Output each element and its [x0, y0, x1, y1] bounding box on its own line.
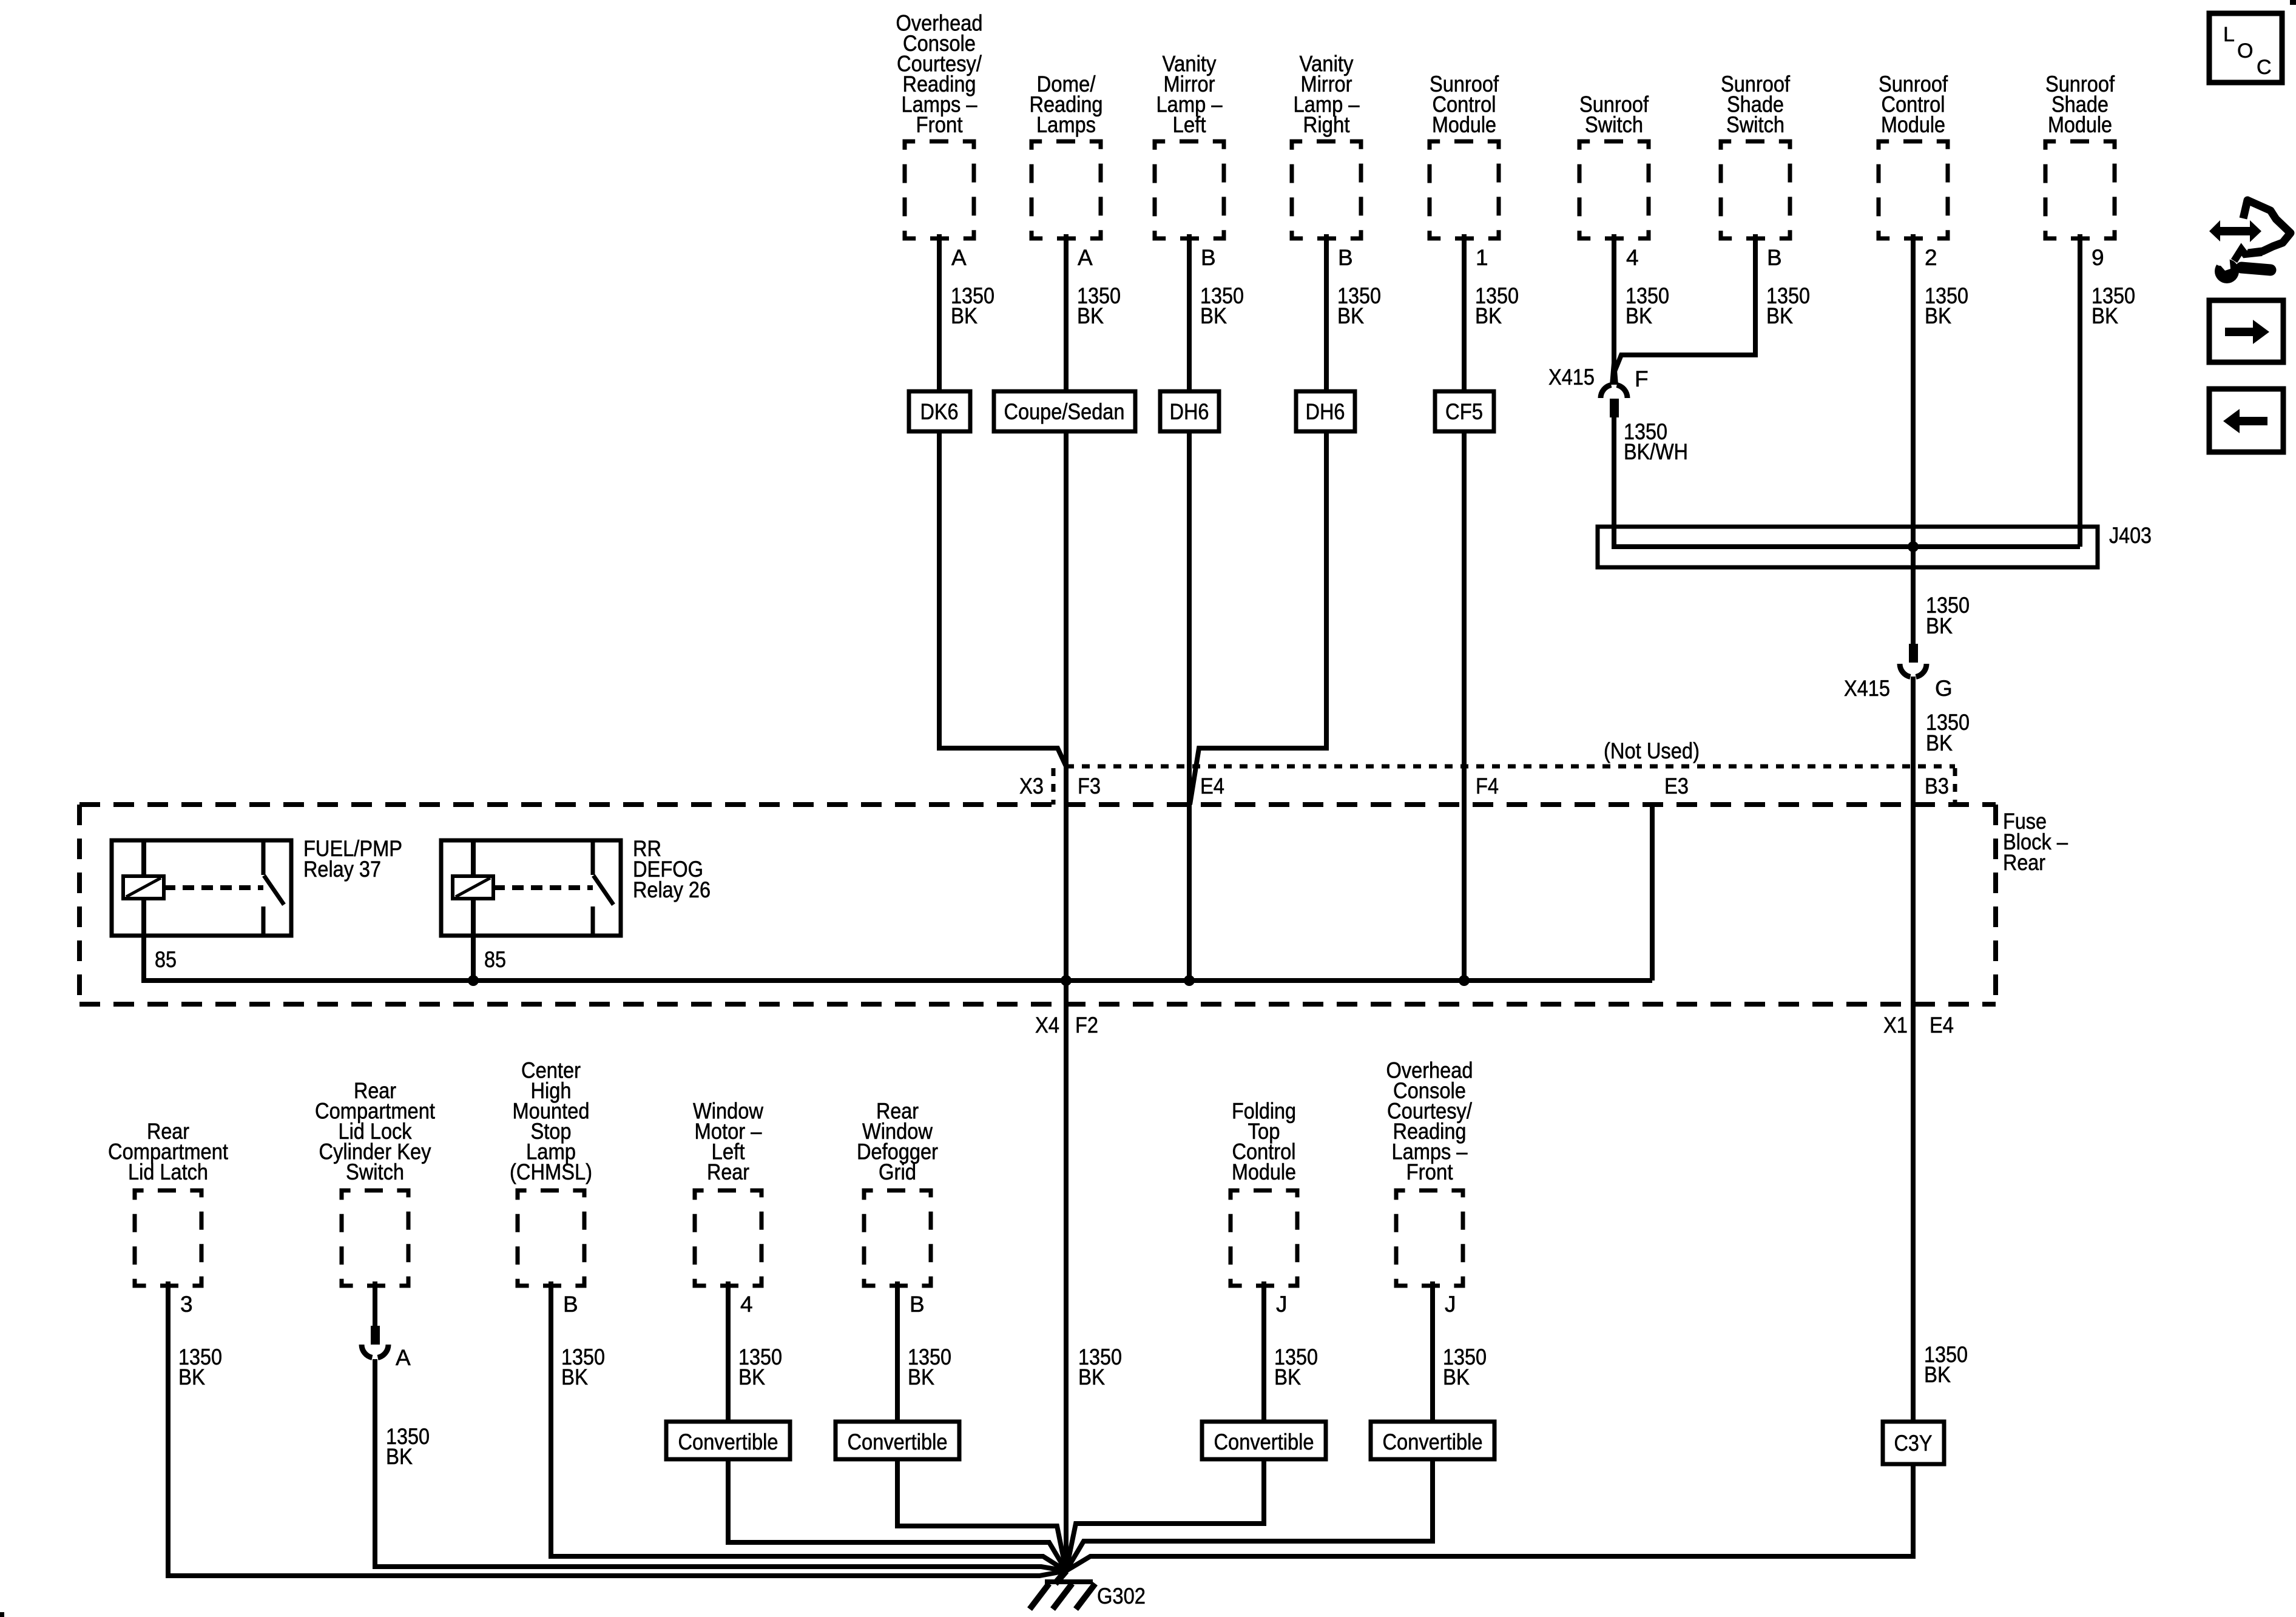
- page artifact top-right: [2290, 0, 2296, 5]
- svg-text:Front: Front: [916, 112, 964, 137]
- component Sunroof Switch (top): [1579, 92, 1649, 239]
- wire label 1350 BK (F2 ground wire): [1078, 1345, 1122, 1389]
- wire from Overhead Console pin J: [1430, 1281, 1435, 1422]
- relay 37 pin 85 wire to ground bus: [141, 899, 146, 981]
- wire from Window Motor pin 4: [726, 1281, 731, 1422]
- svg-text:G: G: [1935, 676, 1953, 701]
- wire from DH6 right joining pin E4: [1190, 431, 1326, 805]
- svg-text:E3: E3: [1664, 774, 1689, 798]
- fuse block - rear dashed border left: [77, 805, 82, 1004]
- component Folding Top Control Module: [1231, 1099, 1297, 1286]
- svg-text:Lid Latch: Lid Latch: [128, 1160, 208, 1184]
- svg-text:85: 85: [155, 947, 177, 972]
- svg-text:L: L: [2223, 23, 2235, 46]
- svg-text:9: 9: [2092, 245, 2104, 270]
- svg-text:DH6: DH6: [1170, 399, 1209, 424]
- svg-text:BK: BK: [561, 1365, 588, 1389]
- icon arrow previous page: [2209, 389, 2283, 452]
- wire below C3Y to ground: [1066, 1464, 1913, 1571]
- svg-text:BK: BK: [1077, 303, 1104, 328]
- wire from Vanity Mirror Right pin B: [1324, 234, 1329, 391]
- component Window Motor - Left Rear: [693, 1099, 763, 1286]
- svg-text:BK: BK: [1924, 1362, 1951, 1387]
- wire from Folding Top pin J: [1261, 1281, 1266, 1422]
- icon jump-to with wrench: [2209, 200, 2291, 283]
- svg-text:BK: BK: [1925, 303, 1951, 328]
- svg-text:BK: BK: [908, 1365, 934, 1389]
- connector label DH6 (left): [1160, 391, 1219, 431]
- svg-text:Lamps: Lamps: [1036, 112, 1096, 137]
- connector X3 dotted boundary tick left: [1052, 768, 1056, 805]
- svg-text:F: F: [1635, 366, 1649, 391]
- svg-text:A: A: [1078, 245, 1093, 270]
- svg-text:Module: Module: [1432, 112, 1496, 137]
- connector X415 G terminal stub: [1909, 644, 1918, 663]
- svg-text:Module: Module: [1232, 1160, 1296, 1184]
- svg-text:Rear: Rear: [707, 1160, 749, 1184]
- wire from Lid Latch pin 3 to ground: [168, 1281, 1066, 1576]
- connector X3 not-used dotted line: [1066, 765, 1955, 769]
- wire from DH6 left to fuse block pin E4: [1187, 431, 1192, 981]
- component Sunroof Control Module (top left): [1430, 72, 1499, 238]
- svg-text:BK: BK: [1926, 731, 1953, 755]
- svg-text:O: O: [2237, 39, 2253, 62]
- svg-text:B: B: [910, 1292, 925, 1317]
- option label Convertible (overhead console): [1371, 1422, 1494, 1459]
- svg-text:DH6: DH6: [1306, 399, 1345, 424]
- svg-text:(CHMSL): (CHMSL): [510, 1160, 592, 1184]
- junction node in J403: [1908, 541, 1919, 552]
- svg-text:F3: F3: [1078, 774, 1101, 798]
- svg-text:BK: BK: [738, 1365, 765, 1389]
- wire from Sunroof Shade Switch pin B joining Sunroof Switch wire: [1615, 234, 1755, 371]
- lid lock connector female arc: [362, 1345, 388, 1358]
- svg-text:BK: BK: [1475, 303, 1502, 328]
- svg-text:4: 4: [740, 1292, 753, 1317]
- relay 26 coil-contact dashed link: [493, 885, 593, 890]
- connector X415 F male terminal wedge: [1610, 363, 1618, 385]
- svg-text:X4: X4: [1035, 1013, 1059, 1038]
- wire from CF5 to fuse block pin F4: [1462, 431, 1467, 981]
- component Overhead Console Courtesy/Reading Lamps - Front (top): [896, 11, 983, 239]
- lid lock connector terminal stub: [371, 1326, 380, 1345]
- svg-text:B: B: [1767, 245, 1782, 270]
- svg-text:BK: BK: [178, 1365, 205, 1389]
- svg-text:F2: F2: [1075, 1013, 1098, 1038]
- wire from Sunroof Control Module pin 2 down through J403 to X415 G: [1911, 234, 1916, 644]
- component Sunroof Control Module (top right): [1879, 72, 1948, 238]
- fuse block - rear dashed border right: [1993, 805, 1998, 1004]
- svg-text:85: 85: [484, 947, 506, 972]
- wire label 1350 BK: [1274, 1345, 1318, 1389]
- svg-text:E4: E4: [1200, 774, 1224, 798]
- component Rear Compartment Lid Lock Cylinder Key Switch: [315, 1078, 436, 1286]
- relay 26 coil feed: [471, 840, 476, 876]
- junction node E4 wire on bus: [1184, 975, 1195, 986]
- svg-text:BK: BK: [2092, 303, 2118, 328]
- option label Convertible (window motor): [666, 1422, 790, 1459]
- svg-text:BK: BK: [1337, 303, 1364, 328]
- wire label 1350 BK: [1200, 283, 1244, 328]
- svg-text:C3Y: C3Y: [1894, 1431, 1933, 1456]
- svg-text:BK: BK: [1274, 1365, 1301, 1389]
- svg-text:DK6: DK6: [920, 399, 959, 424]
- svg-text:Switch: Switch: [1726, 112, 1784, 137]
- wire 1350 BK/WH from X415 F to J403 splice: [1614, 417, 2080, 547]
- relay 37 coil: [123, 876, 164, 899]
- svg-text:BK: BK: [1078, 1365, 1105, 1389]
- splice pack J403: [1598, 527, 2098, 567]
- svg-text:Convertible: Convertible: [848, 1430, 948, 1454]
- junction node relay 26 on bus: [468, 975, 479, 986]
- wire from CHMSL pin B to ground: [551, 1281, 1066, 1571]
- svg-text:E4: E4: [1930, 1013, 1954, 1038]
- fuse block - rear dashed border top: [79, 802, 1996, 807]
- wire label 1350 BK: [908, 1345, 951, 1389]
- svg-text:C: C: [2257, 56, 2272, 79]
- component Overhead Console Courtesy/Reading Lamps - Front (bottom): [1386, 1058, 1473, 1286]
- relay 37 switch: [263, 840, 284, 936]
- ground G302 stem: [1055, 1571, 1066, 1584]
- wire label 1350 BK (C3Y wire): [1924, 1342, 1968, 1387]
- relay 37 coil-contact dashed link: [164, 885, 263, 890]
- relay RR DEFOG Relay 26 box: [441, 840, 621, 936]
- component Rear Compartment Lid Latch: [108, 1119, 229, 1286]
- wire label 1350 BK (below J403): [1926, 593, 1970, 638]
- svg-text:X3: X3: [1019, 774, 1044, 798]
- wire from Coupe/Sedan down through fuse block to ground: [1064, 431, 1069, 1571]
- svg-text:Convertible: Convertible: [1383, 1430, 1483, 1454]
- wire from X415 G down to C3Y: [1911, 677, 1916, 1422]
- ground junction blob: [1059, 1562, 1073, 1574]
- svg-text:A: A: [951, 245, 967, 270]
- svg-text:B3: B3: [1925, 774, 1949, 798]
- svg-text:Grid: Grid: [879, 1160, 916, 1184]
- svg-text:B: B: [563, 1292, 578, 1317]
- wire label 1350 BK: [1443, 1345, 1487, 1389]
- wire label 1350 BK: [738, 1345, 782, 1389]
- svg-text:X1: X1: [1883, 1013, 1908, 1038]
- icon arrow next page: [2209, 300, 2283, 362]
- option label Convertible (defogger): [836, 1422, 959, 1459]
- wire from Sunroof Shade Module pin 9 down to J403 splice: [2078, 234, 2082, 547]
- svg-text:J: J: [1276, 1292, 1288, 1317]
- wire below Convertible to ground: [897, 1459, 1066, 1571]
- svg-text:BK: BK: [1200, 303, 1227, 328]
- svg-text:Relay 26: Relay 26: [633, 877, 711, 902]
- connector label DK6: [909, 391, 970, 431]
- svg-text:Convertible: Convertible: [678, 1430, 778, 1454]
- svg-text:X415: X415: [1844, 676, 1890, 701]
- junction node F2 wire on bus: [1061, 975, 1072, 986]
- svg-text:BK: BK: [1926, 613, 1953, 638]
- wire E3 riser: [1650, 805, 1655, 981]
- relay 26 coil: [453, 876, 493, 899]
- svg-text:Switch: Switch: [1585, 112, 1643, 137]
- wire label 1350 BK: [1475, 283, 1519, 328]
- connector label C3Y: [1883, 1422, 1944, 1464]
- svg-text:B: B: [1201, 245, 1216, 270]
- component Vanity Mirror Lamp - Right (top): [1292, 52, 1361, 239]
- wire label 1350 BK: [1766, 283, 1810, 328]
- wire label 1350 BK: [1626, 283, 1669, 328]
- svg-text:J403: J403: [2109, 523, 2152, 548]
- svg-text:B: B: [1338, 245, 1353, 270]
- component Vanity Mirror Lamp - Left (top): [1155, 52, 1224, 239]
- legend LOC box: [2209, 13, 2282, 83]
- svg-text:Front: Front: [1406, 1160, 1454, 1184]
- component Dome/Reading Lamps (top): [1030, 72, 1103, 238]
- svg-text:Module: Module: [2048, 112, 2112, 137]
- svg-text:F4: F4: [1476, 774, 1499, 798]
- svg-text:CF5: CF5: [1445, 399, 1483, 424]
- label Fuse Block - Rear: [2003, 809, 2068, 875]
- wire label 1350 BK/WH: [1624, 419, 1688, 464]
- ground G302 bar: [1045, 1579, 1093, 1584]
- svg-text:4: 4: [1626, 245, 1639, 270]
- svg-text:1: 1: [1476, 245, 1488, 270]
- wire below Convertible to ground: [728, 1459, 1066, 1571]
- wire from lid lock connector to ground: [375, 1359, 1066, 1571]
- component Sunroof Shade Module (top): [2045, 72, 2115, 238]
- svg-text:J: J: [1445, 1292, 1456, 1317]
- component Rear Window Defogger Grid: [857, 1099, 938, 1286]
- ground G302 hatch strokes: [1030, 1584, 1095, 1609]
- ground bus wire inside fuse block: [141, 978, 1652, 983]
- wire stub from Lid Lock switch: [373, 1281, 377, 1326]
- wire below Convertible to ground: [1066, 1459, 1433, 1571]
- junction node F4 wire on bus: [1459, 975, 1470, 986]
- svg-text:BK: BK: [1626, 303, 1652, 328]
- svg-text:Right: Right: [1303, 112, 1351, 137]
- svg-text:G302: G302: [1097, 1584, 1146, 1609]
- svg-text:Module: Module: [1881, 112, 1945, 137]
- relay 26 switch: [593, 840, 613, 936]
- wire from DK6 to fuse block pin F3: [939, 431, 1066, 766]
- svg-text:2: 2: [1925, 245, 1937, 270]
- wire from Overhead Console pin A: [937, 234, 942, 391]
- wire below Convertible to ground: [1066, 1459, 1264, 1571]
- wire from Sunroof Control Module pin 1: [1462, 234, 1467, 391]
- connector label CF5: [1435, 391, 1494, 431]
- wire label 1350 BK (below X415 G): [1926, 710, 1970, 755]
- svg-text:A: A: [396, 1345, 411, 1370]
- component Sunroof Shade Switch (top): [1721, 72, 1791, 238]
- svg-text:BK: BK: [1443, 1365, 1470, 1389]
- wire from Vanity Mirror Left pin B: [1187, 234, 1192, 391]
- wire from Sunroof Switch pin 4: [1612, 234, 1616, 385]
- relay FUEL/PMP Relay 37 box: [112, 840, 291, 936]
- wire label 1350 BK: [1337, 283, 1381, 328]
- svg-text:Relay 37: Relay 37: [303, 857, 381, 882]
- wire label 1350 BK: [1077, 283, 1121, 328]
- svg-text:Coupe/Sedan: Coupe/Sedan: [1004, 399, 1125, 424]
- wire label 1350 BK: [386, 1424, 430, 1469]
- connector X415 F female arc: [1601, 385, 1627, 399]
- connector X3 dotted boundary tick right: [1953, 768, 1957, 805]
- connector X415 G female arc: [1900, 664, 1926, 677]
- svg-text:Left: Left: [1173, 112, 1207, 137]
- wire from Dome/Reading Lamps pin A: [1064, 234, 1069, 391]
- svg-text:Rear: Rear: [2003, 850, 2045, 875]
- connector X415 F terminal stub: [1610, 399, 1619, 417]
- svg-text:BK: BK: [386, 1444, 413, 1469]
- wire label 1350 BK: [1925, 283, 1968, 328]
- connector label DH6 (right): [1296, 391, 1355, 431]
- svg-text:(Not Used): (Not Used): [1604, 738, 1700, 763]
- component Center High Mounted Stop Lamp (CHMSL): [510, 1058, 592, 1286]
- wire label 1350 BK: [951, 283, 994, 328]
- svg-text:3: 3: [180, 1292, 193, 1317]
- label RR DEFOG Relay 26: [633, 836, 711, 902]
- wire label 1350 BK: [561, 1345, 605, 1389]
- connector label Coupe/Sedan: [994, 391, 1135, 431]
- page artifact bottom-left: [0, 1612, 4, 1617]
- label FUEL/PMP Relay 37: [303, 836, 402, 882]
- wire label 1350 BK: [178, 1345, 222, 1389]
- fuse block - rear dashed border bottom: [79, 1002, 1996, 1007]
- wire from Defogger Grid pin B: [895, 1281, 900, 1422]
- svg-text:Switch: Switch: [346, 1160, 404, 1184]
- svg-text:BK: BK: [1766, 303, 1793, 328]
- wire label 1350 BK: [2092, 283, 2135, 328]
- svg-text:X415: X415: [1548, 365, 1595, 390]
- svg-text:BK/WH: BK/WH: [1624, 439, 1688, 464]
- svg-text:Convertible: Convertible: [1214, 1430, 1314, 1454]
- relay 37 coil feed: [141, 840, 146, 876]
- svg-text:BK: BK: [951, 303, 977, 328]
- option label Convertible (folding top): [1202, 1422, 1326, 1459]
- relay 26 pin 85 wire to ground bus: [471, 899, 476, 981]
